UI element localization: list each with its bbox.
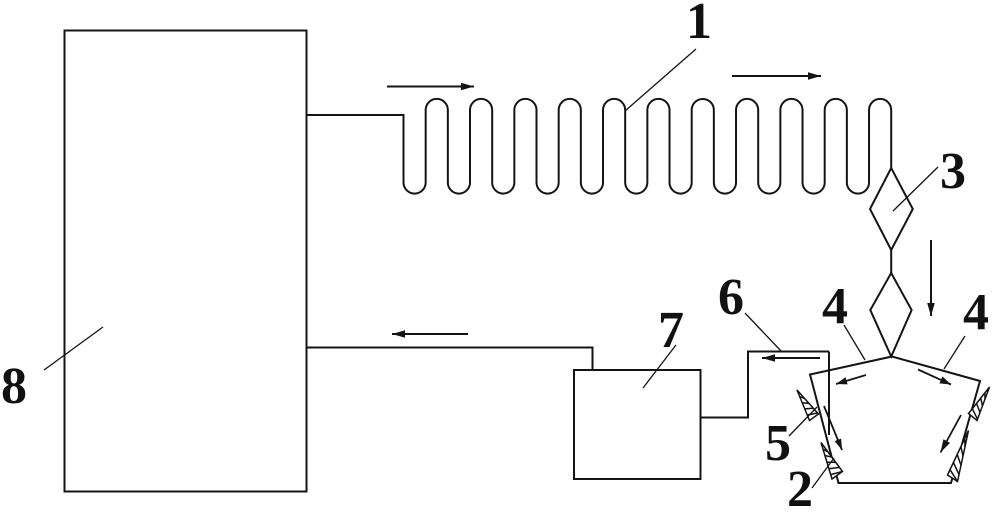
svg-text:3: 3 xyxy=(940,143,966,200)
svg-text:4: 4 xyxy=(963,284,989,341)
svg-text:4: 4 xyxy=(822,278,848,335)
svg-text:6: 6 xyxy=(718,269,744,326)
svg-text:1: 1 xyxy=(686,0,712,50)
svg-text:2: 2 xyxy=(787,461,813,515)
svg-text:8: 8 xyxy=(1,358,27,415)
svg-text:7: 7 xyxy=(658,302,684,359)
